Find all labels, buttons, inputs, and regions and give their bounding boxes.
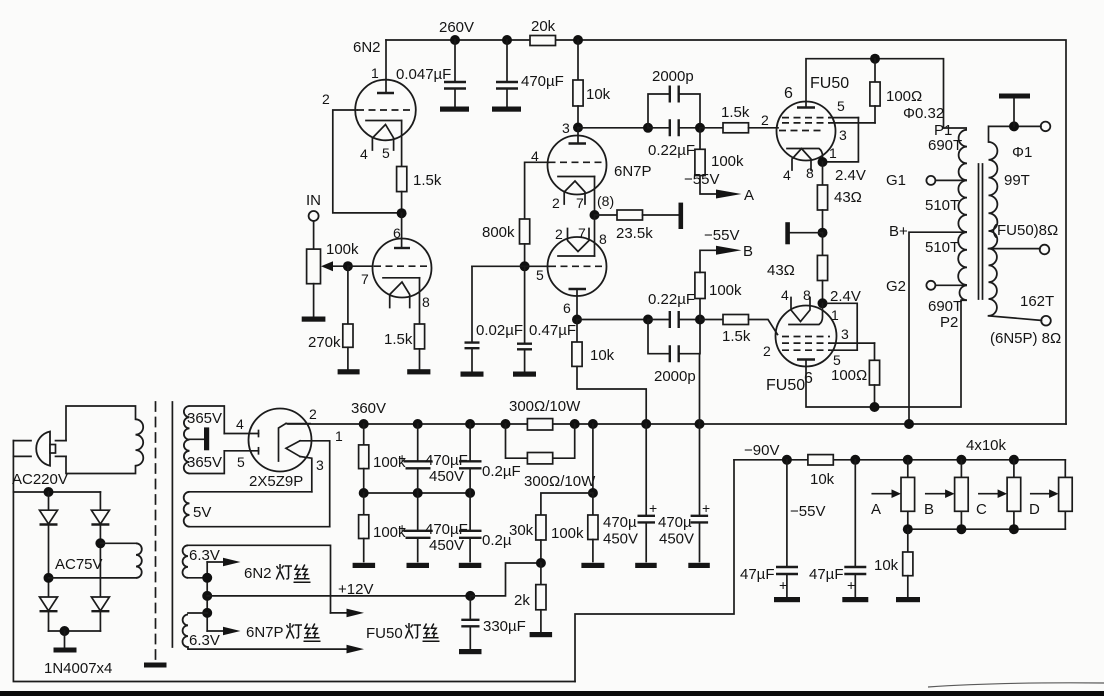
svg-text:5V: 5V (193, 504, 211, 521)
svg-text:450V: 450V (429, 468, 464, 485)
resistor 300 ohm 10W no.1 on rail (527, 419, 552, 430)
svg-text:4: 4 (783, 167, 791, 183)
mid cathode node dot (818, 228, 828, 238)
svg-text:4: 4 (781, 287, 789, 303)
resistor 100 ohm lower (874, 343, 876, 360)
wire 6.3V no.2 bottom to FU50 heater arrow no.2 (188, 648, 347, 650)
svg-text:6N7P: 6N7P (614, 163, 652, 180)
svg-text:0.02µF: 0.02µF (476, 322, 523, 339)
ground for 0.02uF (461, 372, 484, 377)
grid dashed 6N2 upper (357, 109, 414, 111)
svg-text:6.3V: 6.3V (189, 632, 220, 649)
wire cathode to resistor 1.5k (401, 121, 403, 167)
svg-text:360V: 360V (351, 400, 386, 417)
node dot +12V / 330uF (465, 591, 475, 601)
svg-text:IN: IN (306, 192, 321, 209)
common cathode node dot (590, 210, 600, 220)
wire 30k link (541, 493, 593, 515)
screen grid rows lower FU50 (782, 337, 830, 351)
wire top B+ rail and right border down to lower rail (386, 40, 1066, 424)
capacitor 0.02uF (471, 266, 473, 372)
svg-text:D: D (1029, 501, 1040, 518)
wire 1.5k to node 6 (401, 192, 403, 214)
svg-text:A: A (744, 187, 754, 204)
wire 1.5k to ground (419, 349, 421, 370)
svg-text:4: 4 (360, 146, 368, 162)
svg-text:3: 3 (841, 326, 849, 342)
svg-text:−55V: −55V (684, 171, 719, 188)
svg-text:300Ω/10W: 300Ω/10W (509, 398, 581, 415)
wire pin 1 to 5V winding bottom (300, 441, 330, 527)
resistor 100k to -55V (A) (699, 128, 701, 150)
cathode node dot lower FU50 (818, 298, 828, 308)
svg-text:0.47µF: 0.47µF (529, 322, 576, 339)
grid dashed 6N2 lower (374, 265, 430, 267)
wire 270k to ground (347, 347, 349, 369)
resistor 30k (536, 515, 546, 540)
svg-text:1: 1 (829, 145, 837, 161)
wire plate stem 6N2 lower (401, 213, 403, 248)
wire -90V rail (734, 459, 1065, 461)
node dot wiper junction (343, 261, 353, 271)
capacitor 0.22uF upper (648, 127, 700, 129)
wire pots bottom bus (908, 528, 1066, 530)
ground for 270k (338, 369, 360, 374)
node dot right of 0.22uF upper (695, 123, 705, 133)
wire plate FU50 lower to P2 (806, 300, 961, 407)
arrow B -55V (716, 246, 742, 255)
lower coupling: wire node to caps (577, 319, 648, 321)
svg-text:10k: 10k (810, 471, 835, 488)
chassis ground bar (23.5k) (679, 203, 684, 229)
wire pot bottom to ground (313, 284, 315, 317)
svg-text:7: 7 (578, 225, 586, 241)
terminal (FU50) 8 ohm tap (989, 248, 1041, 250)
node 6 junction dot (397, 208, 407, 218)
transformer core lines (979, 164, 983, 299)
primary winding bumps (136, 419, 144, 465)
wire wiper to grid of lower 6N2 (348, 265, 373, 267)
svg-text:1: 1 (335, 428, 343, 444)
filament inside rectifier (279, 423, 287, 461)
svg-text:10k: 10k (586, 86, 611, 103)
svg-text:10k: 10k (590, 347, 615, 364)
resistor 100k filter no.2 (363, 493, 365, 515)
svg-text:(6N5P) 8Ω: (6N5P) 8Ω (990, 330, 1061, 347)
resistor 43 ohm upper (822, 162, 824, 185)
svg-text:2.4V: 2.4V (835, 167, 866, 184)
resistor 10k bias bottom (907, 529, 909, 552)
plate bar upper 6N7P (569, 142, 587, 144)
wire 43 ohm to mid ground (822, 210, 824, 233)
svg-text:−55V: −55V (790, 503, 825, 520)
resistor 43 ohm lower (822, 233, 824, 256)
svg-text:FU50: FU50 (810, 75, 849, 92)
diode D4 (91, 597, 109, 611)
svg-text:1.5k: 1.5k (721, 104, 750, 121)
svg-text:10k: 10k (874, 557, 899, 574)
svg-text:23.5k: 23.5k (616, 225, 653, 242)
svg-text:2X5Z9P: 2X5Z9P (249, 473, 303, 490)
resistor 800k (520, 219, 530, 244)
node dots on 360V rail (359, 419, 369, 429)
tube V4 FU50 lower (776, 306, 837, 367)
svg-text:G2: G2 (886, 278, 906, 295)
cathode 6N2 lower (383, 277, 420, 279)
cathode lower 6N7P (558, 255, 595, 257)
svg-text:100k: 100k (326, 241, 359, 258)
capacitor 330uF (469, 596, 471, 650)
potentiometer A (907, 460, 909, 529)
winding 6.3V no.2 (188, 612, 207, 614)
svg-text:7: 7 (576, 195, 584, 211)
resistor 20k on rail (530, 36, 556, 46)
svg-text:(FU50)8Ω: (FU50)8Ω (992, 222, 1058, 239)
svg-text:+: + (649, 500, 657, 516)
ground for core (144, 663, 167, 668)
wire 100 ohm to screen row (874, 106, 876, 123)
primary 510T lower section (958, 232, 967, 285)
svg-text:2: 2 (309, 406, 317, 422)
potentiometer B (960, 460, 962, 529)
heater stubs pins 2,7 lower 6N7P (568, 229, 590, 252)
node dot plate line lower / 100 ohm (870, 402, 880, 412)
wire AC220V feed down left side (13, 441, 575, 682)
svg-text:+: + (398, 450, 406, 466)
plate bar lower 6N7P (569, 288, 587, 290)
svg-text:2: 2 (555, 226, 563, 242)
arrow 6N2 heater (207, 561, 224, 563)
core line secondary side (171, 402, 173, 647)
svg-text:365V: 365V (187, 454, 222, 471)
capacitor 470uF 450V no.1 (417, 424, 419, 493)
wire pin 3 to 5V winding top (300, 457, 312, 492)
node dot 260V rail (450, 35, 460, 45)
svg-text:6: 6 (563, 300, 571, 316)
ground filter left (353, 563, 376, 568)
svg-text:6N2: 6N2 (353, 39, 381, 56)
potentiometer C (1013, 460, 1015, 529)
wire 43 ohm to lower cathode (822, 281, 824, 304)
svg-text:0.047µF: 0.047µF (396, 66, 451, 83)
svg-text:3: 3 (316, 457, 324, 473)
svg-text:B: B (743, 243, 753, 260)
cathode upper FU50 (787, 149, 823, 163)
svg-text:1.5k: 1.5k (722, 328, 751, 345)
upper coupling: wire node3 to caps (578, 127, 648, 129)
secondary 162T section (989, 249, 997, 316)
node dot 2k top (536, 558, 546, 568)
svg-text:AC220V: AC220V (12, 471, 68, 488)
resistor 100k filter no.1 (363, 424, 365, 445)
plug cord wires (13, 441, 66, 457)
wire grid upper 6N7P to 800k (525, 162, 549, 219)
capacitor 2000p lower loop (648, 320, 700, 354)
heater stubs pins 4,8 lower FU50 (791, 298, 810, 322)
capacitor 0.2uF no.1 (469, 424, 471, 493)
svg-text:510T: 510T (925, 197, 959, 214)
resistor 100 ohm upper (874, 59, 876, 82)
svg-text:+: + (847, 577, 855, 593)
winding 6.3V no.1 (188, 545, 331, 613)
svg-text:2k: 2k (514, 592, 530, 609)
diode D1 (40, 510, 58, 524)
tube V5 rectifier 2X5Z9P (249, 409, 312, 472)
centre tap bar (190, 438, 205, 440)
wire 800k to grid node of lower 6N7P (524, 244, 526, 266)
svg-text:−90V: −90V (744, 442, 779, 459)
capacitor 470u 450V no.4 (699, 424, 701, 562)
svg-text:0.22µF: 0.22µF (648, 291, 695, 308)
capacitor 2000p upper loop (648, 94, 700, 128)
wiper arrow into pot (329, 265, 348, 267)
cathode node dot upper FU50 (818, 157, 828, 167)
wire +12V node to 2k node (470, 563, 541, 596)
resistor 23.5k (617, 210, 643, 220)
svg-text:5: 5 (833, 352, 841, 368)
svg-text:100k: 100k (551, 525, 584, 542)
node dot right of 0.22uF lower (695, 315, 705, 325)
ground for 0.047uF (440, 107, 469, 112)
wire mid filter row (364, 492, 470, 494)
wire grid of upper 6N2 to node 6 (SRPP) (333, 110, 397, 213)
tube V1 6N2 lower triode (373, 239, 432, 298)
wire 23.5k to chassis bar (643, 214, 680, 216)
svg-text:3: 3 (839, 127, 847, 143)
transformer core dashed line (155, 402, 157, 661)
cathode arrow inside rectifier (286, 441, 300, 457)
svg-text:690T: 690T (928, 298, 962, 315)
svg-text:0.2µ: 0.2µ (482, 532, 512, 549)
resistor 10k lower 6N7P plate load to rail (576, 320, 578, 343)
svg-text:800k: 800k (482, 224, 515, 241)
svg-text:2: 2 (552, 195, 560, 211)
potentiometer D (1064, 460, 1066, 529)
svg-text:B+: B+ (889, 223, 908, 240)
resistor 1.5k grid stopper upper FU50 (700, 127, 723, 129)
svg-text:2: 2 (761, 112, 769, 128)
svg-text:7: 7 (361, 271, 369, 287)
wire lower B+ 360V rail (288, 423, 1066, 425)
plate bar 6N2 lower (394, 247, 410, 249)
wire common cathode down to lower 6N7P (594, 215, 596, 256)
svg-text:FU50: FU50 (366, 625, 403, 642)
wire bottom return to -90V rail (575, 460, 734, 682)
svg-text:30k: 30k (509, 522, 534, 539)
terminal (6N5P) 8 ohm (989, 316, 1042, 321)
svg-text:100Ω: 100Ω (886, 88, 922, 105)
svg-text:450V: 450V (659, 531, 694, 548)
svg-text:8: 8 (599, 231, 607, 247)
winding AC75V (95, 538, 105, 548)
wire +12V tap (207, 595, 470, 597)
resistor 1.5k grid stopper lower FU50 (700, 319, 723, 321)
svg-text:1: 1 (831, 307, 839, 323)
potentiometer 100k input (307, 249, 321, 284)
grid dashed upper 6N7P (549, 161, 607, 163)
heater stubs pins 2,7 upper 6N7P (564, 181, 585, 204)
plate bar FU50 lower (797, 358, 815, 360)
svg-text:C: C (976, 501, 987, 518)
winding 365V with centre tap (190, 406, 225, 474)
svg-text:A: A (871, 501, 881, 518)
ground for 0.47uF (513, 372, 536, 377)
svg-text:Φ0.32: Φ0.32 (903, 105, 944, 122)
svg-text:4: 4 (236, 416, 244, 432)
svg-text:43Ω: 43Ω (834, 189, 862, 206)
svg-text:43Ω: 43Ω (767, 262, 795, 279)
svg-text:P2: P2 (940, 314, 958, 331)
wire AC220V branch to bridge (13, 491, 100, 493)
svg-text:100k: 100k (711, 153, 744, 170)
wire cathode upper 6N7P down to common node (594, 177, 596, 216)
svg-text:+: + (702, 500, 710, 516)
wire pin 4 of rectifier (224, 433, 258, 435)
resistor 2k (540, 563, 542, 585)
svg-text:470µF: 470µF (425, 521, 468, 538)
resistor 1.5k (lower 6N2 cathode) (414, 324, 424, 349)
svg-text:450V: 450V (603, 531, 638, 548)
svg-text:1.5k: 1.5k (384, 331, 413, 348)
capacitor 0.47uF (524, 266, 526, 372)
svg-text:6: 6 (784, 85, 793, 102)
svg-text:2: 2 (763, 343, 771, 359)
wire plate FU50 upper to top line (806, 59, 944, 128)
svg-text:260V: 260V (439, 19, 474, 36)
scan black strip bottom edge (0, 691, 1104, 696)
wire cathode lower 6N2 to 1.5k (419, 278, 421, 324)
grid dashed lower 6N7P (549, 265, 606, 267)
svg-text:2000p: 2000p (652, 68, 694, 85)
svg-text:8: 8 (803, 287, 811, 303)
svg-text:8: 8 (806, 165, 814, 181)
svg-text:6N7P: 6N7P (246, 624, 284, 641)
arrow A -55V (716, 190, 742, 199)
capacitor 470uF 450V no.2 (417, 493, 419, 562)
svg-text:690T: 690T (928, 137, 962, 154)
wire rail to 100k bleeder (592, 424, 594, 493)
svg-text:450V: 450V (429, 537, 464, 554)
svg-text:100k: 100k (709, 282, 742, 299)
screen grid rows upper FU50 (779, 118, 830, 131)
cathode lower FU50 (789, 303, 823, 324)
node dot after 20k (573, 35, 583, 45)
wire plate stem 6N2 upper (385, 40, 387, 93)
svg-text:470µ: 470µ (658, 514, 692, 531)
svg-text:0.22µF: 0.22µF (648, 142, 695, 159)
svg-text:3: 3 (562, 120, 570, 136)
resistor 10k bias rail (808, 455, 833, 465)
capacitor 47uF no.1 (786, 460, 788, 598)
wire pin 2 output to rail (286, 423, 310, 425)
svg-text:270k: 270k (308, 334, 341, 351)
wire screen box to cathode node lower FU50 (827, 303, 857, 350)
svg-text:−55V: −55V (704, 227, 739, 244)
heater 6N2 upper with pins 4,5 stubs (372, 125, 393, 151)
ground for lower 1.5k (407, 369, 430, 374)
mains transformer primary box (66, 406, 136, 474)
terminal secondary top (1041, 122, 1051, 132)
node dot left of 0.22uF lower (643, 315, 653, 325)
wire pin 5 of rectifier (224, 450, 258, 452)
svg-text:4x10k: 4x10k (966, 437, 1007, 454)
wire 6.3V no.1 to heater bus (188, 577, 207, 579)
wire IN to pot (313, 221, 315, 249)
primary 510T upper section (958, 180, 967, 232)
wire screen box to cathode node upper FU50 (823, 118, 858, 162)
svg-text:300Ω/10W: 300Ω/10W (524, 473, 596, 490)
svg-text:330µF: 330µF (483, 618, 526, 635)
winding 5V (190, 492, 330, 527)
svg-text:2: 2 (322, 91, 330, 107)
svg-text:470µF: 470µF (521, 73, 564, 90)
node dot grid lower 6N7P / 800k (520, 261, 530, 271)
svg-text:5: 5 (237, 454, 245, 470)
scan curl faint line bottom right (928, 683, 1104, 687)
svg-text:Φ1: Φ1 (1012, 144, 1032, 161)
capacitor 0.22uF lower (648, 319, 700, 321)
wire wiper down to 270k (347, 266, 349, 324)
capacitor 0.047uF (454, 40, 456, 107)
bridge rectifier 1N4007 x4 (44, 487, 54, 497)
ground for input pot (302, 317, 326, 322)
node dot left of 0.22uF upper (643, 123, 653, 133)
svg-text:20k: 20k (531, 18, 556, 35)
heater stubs pins 4,8 upper FU50 (792, 149, 811, 171)
ground above secondary top (1009, 121, 1019, 131)
diode D2 (91, 510, 109, 524)
resistor 100k to -55V (B) (699, 299, 701, 320)
svg-text:5: 5 (837, 98, 845, 114)
resistor 270k (343, 324, 353, 347)
arrow FU50 heater no.1 (331, 612, 348, 614)
svg-text:162T: 162T (1020, 293, 1054, 310)
svg-text:47µF: 47µF (740, 566, 775, 583)
node dot plate lower 6N7P (572, 315, 582, 325)
wire 1.5k to FU50 grid (749, 127, 779, 129)
svg-text:5: 5 (382, 145, 390, 161)
svg-text:G1: G1 (886, 172, 906, 189)
resistor 100k bleeder (592, 493, 594, 515)
tube V2 6N7P upper triode (548, 136, 607, 195)
svg-text:2000p: 2000p (654, 368, 696, 385)
cathode 6N2 upper (366, 120, 402, 122)
secondary winding top to ground (989, 126, 1042, 142)
node 3 dot (573, 123, 583, 133)
svg-text:47µF: 47µF (809, 566, 844, 583)
node dot plate line / 100 ohm (870, 54, 880, 64)
svg-text:+: + (398, 520, 406, 536)
svg-text:(8): (8) (597, 193, 614, 209)
svg-text:FU50: FU50 (766, 377, 805, 394)
svg-text:AC75V: AC75V (55, 556, 103, 573)
svg-text:470µ: 470µ (603, 514, 637, 531)
arrow 6N7P heater (207, 630, 224, 632)
svg-text:+: + (779, 577, 787, 593)
AC plug (36, 432, 50, 466)
plate bar FU50 upper (797, 106, 815, 108)
wire 100 ohm to plate line lower (874, 385, 876, 407)
capacitor 0.2uF no.2 (469, 493, 471, 562)
capacitor 47uF no.2 (854, 460, 856, 598)
wire grid line to 0.02uF corner (472, 265, 549, 267)
wire 1.5k to lower FU50 grid (749, 320, 778, 335)
resistor 300 ohm 10W no.2 loop (506, 424, 575, 458)
svg-text:1N4007x4: 1N4007x4 (44, 660, 112, 677)
wire plate stem upper 6N7P (577, 128, 579, 144)
capacitor 470u 450V no.3 (699, 354, 701, 424)
node dot B+ vertical to rail (904, 419, 914, 429)
